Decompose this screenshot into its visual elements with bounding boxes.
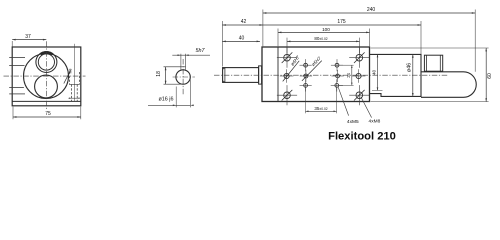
svg-text:Flexitool 210: Flexitool 210 <box>328 130 396 142</box>
svg-text:4xM5: 4xM5 <box>347 119 359 125</box>
svg-text:40: 40 <box>372 69 377 74</box>
svg-text:5h7: 5h7 <box>196 48 206 54</box>
svg-text:40: 40 <box>239 36 245 42</box>
svg-text:75: 75 <box>45 111 51 117</box>
svg-text:240: 240 <box>367 7 376 13</box>
svg-text:100: 100 <box>322 27 330 32</box>
svg-text:175: 175 <box>337 19 346 25</box>
svg-text:ø46: ø46 <box>407 63 413 72</box>
svg-text:18: 18 <box>156 71 162 77</box>
svg-text:ø16 j6: ø16 j6 <box>159 97 174 103</box>
svg-text:42: 42 <box>241 19 247 25</box>
svg-text:60: 60 <box>487 73 493 79</box>
svg-text:24: 24 <box>346 72 351 77</box>
svg-text:4xM8: 4xM8 <box>369 118 381 124</box>
svg-text:80±0.02: 80±0.02 <box>314 36 327 41</box>
svg-text:35±0.02: 35±0.02 <box>314 106 327 111</box>
svg-text:37: 37 <box>25 34 31 40</box>
